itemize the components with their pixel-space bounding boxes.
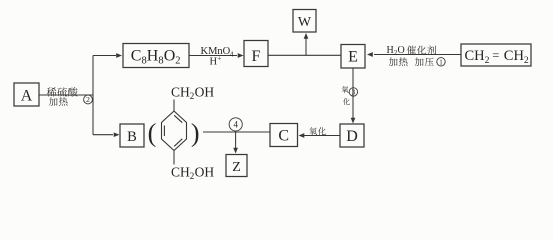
svg-text:E: E: [348, 49, 358, 66]
svg-text:2: 2: [86, 95, 90, 104]
svg-text:O: O: [164, 48, 176, 65]
svg-text:CH: CH: [504, 48, 525, 64]
svg-text:CH: CH: [171, 164, 190, 179]
svg-text:(: (: [148, 118, 157, 147]
svg-text:H: H: [147, 48, 159, 65]
svg-text:=: =: [492, 48, 499, 62]
svg-text:): ): [191, 118, 200, 147]
svg-text:H: H: [387, 45, 394, 56]
svg-text:W: W: [298, 15, 312, 30]
svg-text:C: C: [278, 128, 289, 145]
svg-text:+: +: [217, 54, 221, 63]
svg-text:A: A: [21, 87, 33, 104]
svg-text:2: 2: [175, 56, 180, 67]
svg-text:1: 1: [439, 58, 443, 66]
svg-text:OH: OH: [195, 164, 215, 179]
svg-text:4: 4: [233, 120, 238, 130]
svg-text:B: B: [127, 129, 137, 145]
svg-text:2: 2: [485, 55, 490, 66]
svg-text:4: 4: [230, 49, 234, 58]
svg-text:F: F: [252, 48, 261, 65]
svg-text:CH: CH: [465, 48, 486, 64]
svg-text:O: O: [398, 45, 405, 56]
svg-text:Z: Z: [232, 160, 241, 175]
svg-text:OH: OH: [195, 85, 215, 100]
svg-text:CH: CH: [171, 85, 190, 100]
svg-text:D: D: [346, 128, 358, 145]
svg-text:3: 3: [352, 88, 356, 96]
svg-text:2: 2: [524, 55, 529, 66]
svg-text:C: C: [131, 48, 142, 65]
